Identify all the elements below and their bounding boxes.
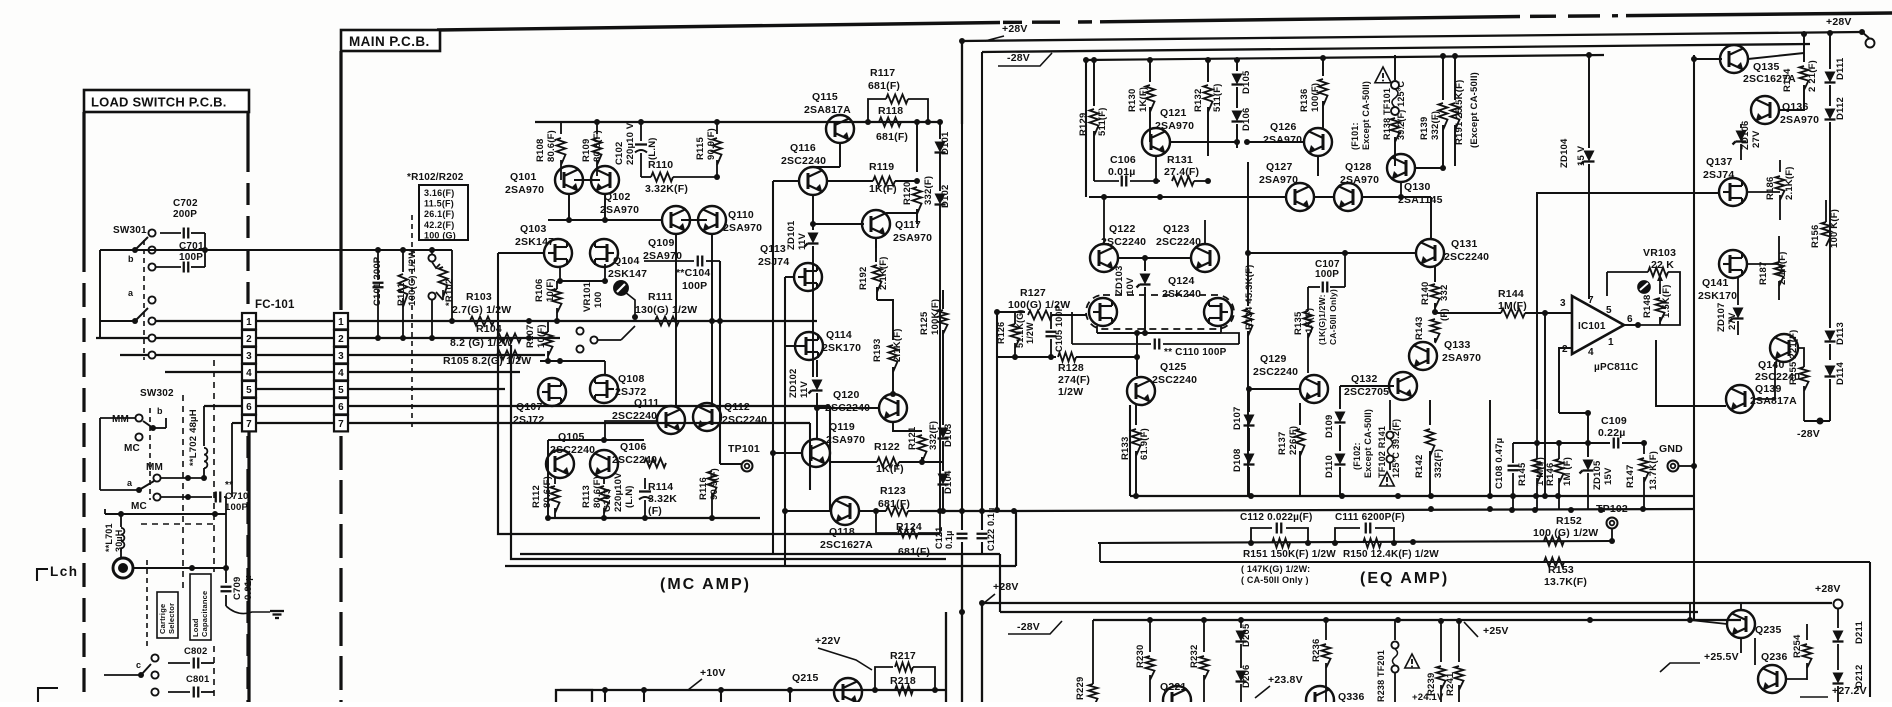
- load capacitance box: [190, 574, 211, 640]
- feedback loop wires: [1607, 271, 1648, 273]
- svg-text:Q125: Q125: [1160, 361, 1187, 373]
- svg-text:R142: R142: [1414, 454, 1425, 478]
- svg-text:R254: R254: [1792, 634, 1803, 658]
- svg-text:R107: R107: [525, 324, 536, 348]
- svg-text:+22V: +22V: [815, 635, 841, 647]
- svg-text:C102: C102: [614, 141, 625, 165]
- svg-text:100 (G) 1/2W: 100 (G) 1/2W: [1533, 527, 1598, 539]
- svg-text:R110: R110: [648, 159, 673, 171]
- svg-text:+23.8V: +23.8V: [1268, 674, 1303, 686]
- svg-text:100P: 100P: [682, 280, 707, 292]
- svg-text:** C110 100P: ** C110 100P: [1164, 347, 1227, 358]
- svg-text:2SJ72: 2SJ72: [513, 414, 544, 426]
- svg-text:R123: R123: [880, 485, 906, 497]
- svg-text:b: b: [157, 406, 163, 416]
- svg-text:c: c: [136, 660, 141, 670]
- svg-text:a: a: [128, 288, 134, 298]
- wire sw302 wiring: [100, 417, 135, 419]
- svg-text:0.1µ: 0.1µ: [944, 531, 954, 550]
- svg-text:R121: R121: [907, 426, 918, 450]
- bottom channel feed verticals: [945, 612, 947, 702]
- mc amp bottom border double line: [505, 565, 1016, 567]
- svg-text:R230: R230: [1135, 644, 1146, 668]
- svg-text:100P: 100P: [225, 502, 248, 513]
- svg-text:2SA817A: 2SA817A: [804, 104, 851, 116]
- right vertical rail +28V: [1859, 29, 1865, 35]
- svg-text:R156: R156: [1810, 224, 1821, 248]
- svg-text:(F102:: (F102:: [1352, 442, 1362, 470]
- mc output bottom wire: [920, 510, 1016, 512]
- svg-text:a: a: [127, 478, 133, 488]
- svg-text:R150 12.4K(F) 1/2W: R150 12.4K(F) 1/2W: [1343, 549, 1439, 560]
- svg-text:R187: R187: [1758, 261, 1769, 285]
- svg-text:R229: R229: [1075, 676, 1086, 700]
- svg-text:Cartrige: Cartrige: [158, 604, 167, 634]
- svg-text:+10V: +10V: [700, 667, 726, 679]
- svg-text:6: 6: [338, 402, 344, 413]
- svg-text:Q107: Q107: [516, 401, 543, 413]
- svg-text:Q108: Q108: [618, 373, 645, 385]
- svg-text:D114: D114: [1835, 361, 1846, 385]
- svg-text:( 147K(G) 1/2W:: ( 147K(G) 1/2W:: [1241, 564, 1310, 574]
- svg-text:+28V: +28V: [1002, 23, 1028, 35]
- svg-text:FC-101: FC-101: [255, 299, 295, 311]
- svg-text:R113: R113: [581, 485, 592, 508]
- svg-text:4: 4: [1588, 347, 1594, 358]
- load switch pcb left edge: [82, 112, 85, 248]
- input jack Lch: [113, 558, 133, 578]
- capacitor C701: [183, 262, 185, 273]
- svg-text:2SC2240: 2SC2240: [722, 414, 767, 426]
- svg-text:( CA-50II Only ): ( CA-50II Only ): [1241, 575, 1309, 585]
- svg-text:2SC2240: 2SC2240: [1152, 374, 1197, 386]
- eq mirror rail y197: [1089, 196, 1286, 198]
- svg-text:R232: R232: [1189, 644, 1200, 668]
- svg-text:R143: R143: [1414, 316, 1425, 340]
- op-amp IC101: [1572, 296, 1624, 354]
- svg-text:1: 1: [1608, 337, 1614, 348]
- svg-text:CA-50II Only): CA-50II Only): [1328, 289, 1338, 345]
- svg-text:15V: 15V: [1603, 467, 1614, 485]
- svg-text:Q116: Q116: [790, 142, 816, 154]
- svg-text:Capacitance: Capacitance: [200, 591, 209, 637]
- svg-text:R217: R217: [890, 650, 916, 662]
- svg-text:MM: MM: [146, 462, 163, 473]
- svg-text:MC: MC: [131, 501, 147, 512]
- svg-text:-28V: -28V: [1017, 621, 1040, 633]
- svg-text:Q101: Q101: [510, 171, 537, 183]
- svg-text:(1K(G)1/2W:: (1K(G)1/2W:: [1317, 294, 1327, 345]
- wire pin7 turn down: [809, 423, 811, 490]
- svg-text:Q126: Q126: [1270, 121, 1297, 133]
- svg-text:C122 0.1µ: C122 0.1µ: [986, 507, 996, 551]
- svg-text:Q136: Q136: [1782, 101, 1809, 113]
- switch SW301 lower contacts: [148, 296, 155, 303]
- svg-text:681(F): 681(F): [876, 131, 908, 143]
- svg-text:6: 6: [246, 402, 252, 413]
- svg-text:Q114: Q114: [826, 329, 852, 341]
- wire mc out to eq R127: [997, 311, 1025, 313]
- wires right section: [1693, 55, 1695, 620]
- svg-text:2SK147: 2SK147: [608, 268, 647, 280]
- connector FC-101 column A: [242, 313, 256, 329]
- svg-text:D112: D112: [1835, 97, 1846, 120]
- dashed link sw302: [149, 408, 151, 500]
- svg-text:R148: R148: [1642, 294, 1653, 318]
- svg-text:3.16(F): 3.16(F): [424, 188, 454, 198]
- svg-text:Q118: Q118: [829, 526, 855, 538]
- svg-text:TP102: TP102: [1596, 503, 1628, 515]
- svg-text:5: 5: [246, 385, 252, 396]
- svg-text:R106: R106: [534, 278, 545, 302]
- svg-text:R154: R154: [1782, 68, 1793, 92]
- svg-text:R108: R108: [535, 138, 546, 162]
- svg-text:42.2(F): 42.2(F): [424, 220, 454, 230]
- svg-text:R139: R139: [1419, 116, 1430, 140]
- svg-text:200P: 200P: [173, 209, 197, 220]
- svg-text:100 K(F): 100 K(F): [1829, 209, 1840, 248]
- svg-text:R147: R147: [1625, 464, 1636, 488]
- svg-text:**: **: [225, 480, 233, 491]
- svg-text:R151 150K(F) 1/2W: R151 150K(F) 1/2W: [1243, 549, 1336, 560]
- svg-text:D111: D111: [1835, 57, 1846, 80]
- svg-text:Q121: Q121: [1160, 107, 1187, 119]
- svg-text:4: 4: [338, 368, 344, 379]
- wire pin2 loop: [1559, 348, 1572, 413]
- svg-text:511(F): 511(F): [1212, 83, 1223, 112]
- svg-text:Q112: Q112: [724, 401, 750, 413]
- main p.c.b. label box: [341, 30, 440, 51]
- wire q127 q128 join: [1314, 196, 1334, 198]
- svg-text:+28V: +28V: [993, 581, 1019, 593]
- svg-text:Q235: Q235: [1755, 624, 1782, 636]
- svg-text:b: b: [128, 254, 134, 264]
- bottom channel bracket: [38, 688, 58, 702]
- wire pin6 turn down: [829, 406, 831, 511]
- svg-text:R103: R103: [466, 291, 492, 303]
- load switch p.c.b. label box: [84, 90, 249, 112]
- svg-text:+25.5V: +25.5V: [1704, 651, 1739, 663]
- wire q119-q120: [817, 407, 879, 409]
- svg-text:C105 100P: C105 100P: [1054, 305, 1064, 352]
- wires output stage verticals: [839, 143, 841, 167]
- svg-text:ZD107: ZD107: [1716, 302, 1727, 332]
- svg-text:2SA970: 2SA970: [723, 222, 762, 234]
- svg-text:Q133: Q133: [1444, 339, 1471, 351]
- svg-text:TP101: TP101: [728, 443, 760, 455]
- svg-text:Q120: Q120: [833, 389, 860, 401]
- wire vertical misc: [1489, 400, 1491, 496]
- dashed mechanical link sw301: [143, 240, 145, 360]
- svg-text:+25V: +25V: [1483, 625, 1509, 637]
- svg-text:130(G) 1/2W: 130(G) 1/2W: [635, 304, 697, 316]
- wire Q101-Q102 bases: [574, 179, 600, 181]
- svg-text:26.1(F): 26.1(F): [424, 209, 454, 219]
- svg-text:+27.2V: +27.2V: [1832, 685, 1867, 697]
- svg-text:0.01µ: 0.01µ: [243, 575, 254, 600]
- svg-text:C106: C106: [1110, 154, 1136, 166]
- wire Q121 to D105 node: [1170, 141, 1237, 143]
- svg-text:5: 5: [338, 385, 344, 396]
- svg-text:ZD102: ZD102: [788, 368, 799, 398]
- svg-text:R153: R153: [1548, 564, 1574, 576]
- svg-text:Q106: Q106: [620, 441, 647, 453]
- svg-text:VR103: VR103: [1643, 247, 1676, 259]
- svg-text:2SA1145: 2SA1145: [1398, 194, 1443, 206]
- svg-text:13.7K(F): 13.7K(F): [1544, 576, 1587, 588]
- wire pin1 to Q103 gate: [498, 252, 544, 254]
- svg-text:C802: C802: [184, 646, 208, 657]
- svg-text:+28V: +28V: [1815, 583, 1841, 595]
- warning triangle F102: [1380, 472, 1394, 486]
- svg-text:125°C 39.2(F): 125°C 39.2(F): [1391, 419, 1401, 478]
- svg-text:R129: R129: [1078, 112, 1089, 136]
- svg-text:R127: R127: [1020, 287, 1046, 299]
- svg-text:(F): (F): [1439, 308, 1450, 321]
- svg-text:Q128: Q128: [1345, 161, 1372, 173]
- svg-text:R136: R136: [1299, 88, 1310, 112]
- EQ left feed verticals: [961, 41, 963, 124]
- svg-text:5: 5: [1606, 305, 1612, 316]
- main p.c.b. border top edge: [437, 23, 1000, 31]
- svg-text:Q115: Q115: [812, 91, 838, 103]
- svg-text:332(F): 332(F): [1433, 449, 1444, 478]
- switch c contacts: [151, 654, 158, 661]
- svg-text:(F): (F): [648, 505, 662, 517]
- svg-text:R114: R114: [648, 481, 673, 493]
- svg-text:1M (F): 1M (F): [1562, 457, 1573, 486]
- wire q139-q140: [1754, 362, 1775, 399]
- wires between connector columns and into main pcb: [256, 320, 334, 322]
- svg-text:-28V: -28V: [1797, 428, 1820, 440]
- svg-text:2SC2240: 2SC2240: [1253, 366, 1298, 378]
- main pcb left edge vertical: [339, 51, 342, 310]
- attenuator rail wire: [100, 249, 452, 251]
- svg-text:3.32K: 3.32K: [648, 493, 677, 505]
- svg-text:R112: R112: [531, 485, 542, 508]
- bottom channel left box stub: [556, 690, 592, 702]
- bottom channel main wire: [560, 689, 946, 691]
- svg-text:Q111: Q111: [634, 397, 659, 409]
- svg-text:Q135: Q135: [1753, 61, 1780, 73]
- svg-text:Lch: Lch: [50, 564, 79, 579]
- svg-text:D109: D109: [1324, 414, 1335, 438]
- svg-text:R239: R239: [1426, 672, 1437, 696]
- svg-text:R155 221(F): R155 221(F): [1788, 329, 1799, 385]
- svg-text:D110: D110: [1324, 455, 1335, 478]
- svg-text:681(F): 681(F): [898, 546, 930, 558]
- bias row wire: [540, 360, 605, 362]
- svg-text:R119: R119: [869, 161, 894, 173]
- cartridge selector box: [157, 592, 178, 638]
- mc amp bottom rails: [548, 517, 760, 519]
- svg-text:µPC811C: µPC811C: [1594, 362, 1638, 373]
- svg-text:Q131: Q131: [1451, 238, 1478, 250]
- svg-text:6: 6: [1627, 314, 1633, 325]
- svg-text:Q137: Q137: [1706, 156, 1733, 168]
- svg-text:11.5(F): 11.5(F): [424, 199, 454, 209]
- svg-text:3: 3: [338, 351, 344, 362]
- svg-text:MM: MM: [112, 414, 129, 425]
- load switch pcb right edge dashed: [246, 112, 249, 150]
- svg-text:2SA970: 2SA970: [893, 232, 932, 244]
- svg-text:2SA970: 2SA970: [1442, 352, 1481, 364]
- svg-text:Q139: Q139: [1755, 383, 1782, 395]
- svg-text:**L702 48µH: **L702 48µH: [188, 409, 199, 466]
- svg-text:-28V: -28V: [1007, 52, 1030, 64]
- svg-text:R118: R118: [878, 105, 903, 117]
- wire pin6 down: [1635, 322, 1641, 328]
- svg-text:2SC2240: 2SC2240: [1444, 251, 1489, 263]
- svg-text:C108 0.47µ: C108 0.47µ: [1494, 438, 1505, 489]
- svg-text:Q129: Q129: [1260, 353, 1287, 365]
- svg-text:R109: R109: [581, 138, 592, 162]
- svg-text:TF102 R141: TF102 R141: [1377, 426, 1387, 478]
- svg-text:Q127: Q127: [1266, 161, 1293, 173]
- svg-text:(MC AMP): (MC AMP): [660, 576, 751, 593]
- svg-text:Q132: Q132: [1351, 373, 1378, 385]
- svg-text:Q141: Q141: [1702, 277, 1729, 289]
- svg-text:(EQ AMP): (EQ AMP): [1360, 570, 1449, 587]
- svg-text:2SA970: 2SA970: [1780, 114, 1819, 126]
- svg-text:R130: R130: [1127, 88, 1138, 112]
- svg-text:D106: D106: [1241, 107, 1252, 131]
- svg-text:Q130: Q130: [1404, 181, 1431, 193]
- wire MC row: [105, 513, 226, 515]
- svg-text:2SK240: 2SK240: [1162, 288, 1201, 300]
- svg-text:1: 1: [338, 317, 344, 328]
- svg-text:2SA970: 2SA970: [505, 184, 544, 196]
- svg-text:R117: R117: [870, 67, 895, 79]
- svg-text:ZD104: ZD104: [1559, 138, 1570, 168]
- svg-text:(L.N): (L.N): [647, 137, 658, 160]
- capacitor C702: [183, 228, 185, 239]
- svg-text:100P: 100P: [179, 252, 203, 263]
- svg-text:D211: D211: [1854, 620, 1865, 644]
- svg-text:C702: C702: [173, 198, 198, 209]
- svg-text:(F101:: (F101:: [1350, 122, 1360, 150]
- svg-text:10V: 10V: [1125, 277, 1136, 295]
- thermal fuse TF102: [1389, 400, 1391, 430]
- svg-text:274(F): 274(F): [1058, 374, 1090, 386]
- svg-text:2.1K(F): 2.1K(F): [1784, 166, 1795, 200]
- svg-text:100P: 100P: [1315, 269, 1339, 280]
- wire rail to pin1: [451, 250, 453, 321]
- svg-text:C111 6200P(F): C111 6200P(F): [1335, 512, 1405, 523]
- eq lower wire y562: [1100, 561, 1870, 563]
- svg-text:LOAD SWITCH P.C.B.: LOAD SWITCH P.C.B.: [91, 95, 227, 110]
- dashed selector column lines: [182, 395, 184, 590]
- svg-text:11V: 11V: [799, 381, 810, 398]
- warning triangle TF201: [1405, 654, 1419, 668]
- bottom right vertical wires: [1740, 638, 1742, 653]
- svg-text:27V: 27V: [1751, 130, 1762, 148]
- svg-text:Q215: Q215: [792, 672, 819, 684]
- thermal fuse TF101: [1394, 55, 1396, 80]
- svg-text:D113: D113: [1835, 322, 1846, 345]
- svg-text:VR101: VR101: [582, 281, 593, 312]
- svg-text:C121: C121: [934, 527, 944, 549]
- svg-text:332(F): 332(F): [928, 421, 939, 450]
- svg-text:Q117: Q117: [895, 219, 921, 231]
- svg-text:2SA970: 2SA970: [1263, 134, 1302, 146]
- svg-text:100 (G): 100 (G): [424, 230, 456, 240]
- svg-text:2SC1627A: 2SC1627A: [820, 539, 873, 551]
- svg-text:**C104: **C104: [676, 267, 710, 279]
- connector column A lower stem: [247, 432, 250, 703]
- capacitor C710 100P: [185, 494, 191, 500]
- svg-text:D105: D105: [1241, 70, 1252, 94]
- wire from caps to junction: [204, 233, 206, 250]
- svg-text:7: 7: [338, 419, 344, 430]
- svg-text:R128: R128: [1058, 362, 1084, 374]
- svg-text:2SA817A: 2SA817A: [1750, 395, 1797, 407]
- svg-text:2: 2: [1562, 344, 1568, 355]
- svg-text:+28V: +28V: [1826, 16, 1852, 28]
- svg-text:Except CA-50II): Except CA-50II): [1361, 81, 1371, 150]
- svg-text:R122: R122: [874, 441, 900, 453]
- svg-text:Load: Load: [191, 618, 200, 637]
- svg-text:Except CA-50II): Except CA-50II): [1363, 409, 1373, 478]
- svg-text:R125: R125: [919, 311, 930, 335]
- svg-text:2SC2705: 2SC2705: [1344, 386, 1389, 398]
- svg-text:13.7K(F): 13.7K(F): [1648, 451, 1659, 490]
- Lch bracket: [37, 569, 48, 581]
- svg-text:11V: 11V: [797, 233, 808, 250]
- svg-text:Q336: Q336: [1338, 691, 1365, 702]
- svg-text:C710: C710: [225, 491, 249, 502]
- svg-text:7: 7: [1588, 295, 1594, 306]
- svg-text:3.32K(F): 3.32K(F): [645, 183, 688, 195]
- wires mc amp stage2: [548, 439, 644, 441]
- svg-text:2SC2240: 2SC2240: [1156, 236, 1201, 248]
- svg-text:2: 2: [338, 334, 344, 345]
- svg-text:ZD105: ZD105: [1592, 460, 1603, 490]
- svg-text:*R102/R202: *R102/R202: [407, 172, 464, 183]
- svg-text:IC101: IC101: [1578, 321, 1606, 332]
- wire stage1: [560, 167, 562, 169]
- svg-text:Q124: Q124: [1168, 275, 1195, 287]
- dashed trimmer link: [411, 215, 413, 430]
- svg-text:(Except CA-50II): (Except CA-50II): [1469, 72, 1480, 148]
- svg-text:1/2W: 1/2W: [1025, 322, 1035, 344]
- dual fet source wire: [1096, 326, 1098, 333]
- svg-text:Selector: Selector: [167, 603, 176, 634]
- svg-text:R193: R193: [872, 338, 883, 362]
- connector FC-101 column B: [334, 313, 348, 329]
- svg-text:C103: C103: [602, 488, 613, 512]
- top rail of input attenuator: [375, 247, 381, 253]
- svg-text:220µ10V: 220µ10V: [613, 472, 624, 512]
- svg-text:332(F): 332(F): [1430, 111, 1441, 140]
- svg-text:R145: R145: [1517, 462, 1528, 486]
- svg-text:R238 TF201: R238 TF201: [1376, 650, 1386, 702]
- svg-text:R131: R131: [1167, 154, 1193, 166]
- ground symbol: [270, 610, 284, 612]
- svg-text:7: 7: [246, 419, 252, 430]
- svg-text:2SA970: 2SA970: [1155, 120, 1194, 132]
- RC ladder wire: [1098, 541, 1612, 543]
- svg-text:MC: MC: [124, 443, 140, 454]
- svg-text:2SC2240: 2SC2240: [781, 155, 826, 167]
- svg-text:Q109: Q109: [648, 237, 675, 249]
- svg-text:R138 TF101: R138 TF101: [1382, 88, 1392, 140]
- svg-text:R135: R135: [1293, 311, 1304, 335]
- svg-text:511(F): 511(F): [1097, 107, 1108, 136]
- svg-text:2SA970: 2SA970: [826, 434, 865, 446]
- svg-text:**L701: **L701: [104, 523, 114, 552]
- svg-text:R116: R116: [698, 477, 709, 500]
